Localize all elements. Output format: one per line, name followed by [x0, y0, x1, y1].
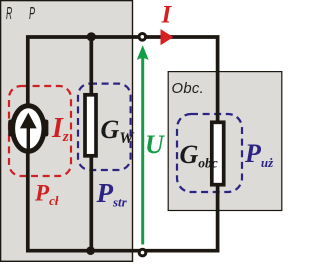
junction bottom [86, 246, 95, 255]
load box panel Obc. [168, 72, 282, 211]
resistor GW [85, 95, 96, 156]
terminal node bottom [139, 249, 146, 256]
svg-text:Obc.: Obc. [172, 80, 205, 97]
svg-text:P: P [29, 3, 35, 23]
terminal node top [139, 34, 146, 41]
svg-text:U: U [145, 130, 165, 159]
current source Iz [8, 106, 48, 151]
power region Pstr blue dashed box [78, 84, 131, 170]
power region PCl red dashed box [9, 86, 71, 176]
resistor Gobc [212, 122, 224, 184]
junction top [87, 32, 96, 41]
svg-text:R: R [6, 3, 12, 23]
power region Puz blue dashed box [177, 114, 242, 192]
svg-text:I: I [161, 2, 173, 29]
wire middle branch [89, 37, 93, 251]
voltage arrow U green [137, 45, 149, 244]
source box panel [1, 1, 133, 262]
wire outer loop [28, 37, 218, 251]
current arrow I [161, 29, 174, 45]
